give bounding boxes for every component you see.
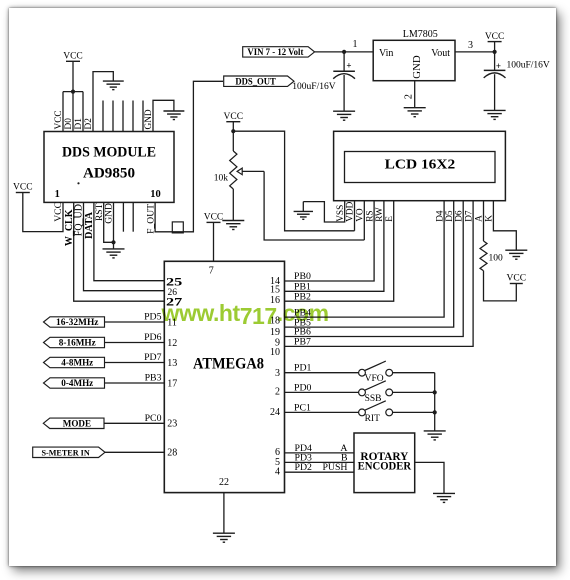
- svg-text:A: A: [475, 215, 485, 222]
- svg-text:RS: RS: [365, 210, 375, 221]
- svg-text:D4: D4: [435, 210, 445, 222]
- svg-text:3: 3: [468, 40, 473, 51]
- svg-text:PB7: PB7: [294, 337, 311, 348]
- svg-text:SSB: SSB: [365, 394, 382, 404]
- svg-text:3: 3: [275, 368, 280, 379]
- svg-text:VCC: VCC: [204, 213, 224, 223]
- svg-text:4: 4: [275, 467, 280, 478]
- svg-text:100uF/16V: 100uF/16V: [507, 61, 550, 71]
- svg-text:D7: D7: [464, 210, 474, 222]
- svg-text:FQ_UD: FQ_UD: [74, 204, 85, 236]
- svg-text:Vin: Vin: [379, 48, 393, 59]
- svg-text:10: 10: [270, 347, 280, 358]
- svg-text:100: 100: [489, 253, 504, 263]
- svg-text:PD5: PD5: [144, 312, 162, 323]
- svg-text:S-METER IN: S-METER IN: [41, 448, 90, 458]
- svg-text:PD7: PD7: [144, 352, 162, 363]
- svg-text:GND: GND: [144, 109, 154, 129]
- svg-text:VCC: VCC: [53, 202, 64, 222]
- svg-text:GND: GND: [104, 203, 115, 224]
- svg-text:VCC: VCC: [507, 274, 527, 284]
- svg-text:25: 25: [166, 275, 182, 289]
- svg-text:E: E: [385, 216, 395, 222]
- svg-text:22: 22: [219, 477, 229, 488]
- svg-text:PD0: PD0: [294, 382, 312, 393]
- svg-text:2: 2: [403, 94, 414, 99]
- svg-text:12: 12: [167, 338, 177, 349]
- svg-text:ATMEGA8: ATMEGA8: [193, 355, 264, 372]
- svg-text:GND: GND: [411, 55, 423, 79]
- svg-text:VCC: VCC: [485, 32, 505, 42]
- svg-text:K: K: [485, 215, 495, 222]
- svg-text:Vout: Vout: [431, 48, 450, 59]
- svg-text:VIN 7 - 12 Volt: VIN 7 - 12 Volt: [247, 47, 304, 58]
- svg-text:D2: D2: [84, 118, 94, 130]
- svg-text:D0: D0: [64, 118, 74, 130]
- svg-text:ENCODER: ENCODER: [358, 460, 412, 472]
- svg-text:LM7805: LM7805: [403, 29, 438, 40]
- svg-text:AD9850: AD9850: [83, 165, 135, 181]
- svg-text:VCC: VCC: [13, 183, 33, 193]
- svg-text:PUSH: PUSH: [322, 462, 347, 473]
- svg-text:RW: RW: [375, 207, 385, 222]
- svg-text:16-32MHz: 16-32MHz: [56, 318, 99, 328]
- svg-text:DDS_OUT: DDS_OUT: [235, 76, 276, 86]
- svg-text:8-16MHz: 8-16MHz: [59, 339, 96, 349]
- svg-text:PC1: PC1: [294, 402, 311, 413]
- svg-text:VCC: VCC: [63, 52, 83, 62]
- svg-text:D6: D6: [454, 210, 464, 222]
- svg-text:VO: VO: [356, 208, 366, 222]
- svg-text:15: 15: [270, 285, 280, 296]
- svg-text:4-8MHz: 4-8MHz: [61, 359, 93, 369]
- svg-text:2: 2: [275, 387, 280, 398]
- svg-text:F_OUT: F_OUT: [145, 204, 156, 234]
- svg-text:17: 17: [167, 378, 177, 389]
- svg-text:23: 23: [167, 419, 177, 430]
- svg-text:PC0: PC0: [145, 413, 162, 424]
- svg-text:LCD 16X2: LCD 16X2: [385, 158, 456, 173]
- svg-text:DDS MODULE: DDS MODULE: [62, 144, 156, 160]
- svg-text:10: 10: [150, 189, 161, 200]
- svg-text:+: +: [496, 61, 501, 71]
- svg-text:0-4MHz: 0-4MHz: [61, 379, 93, 389]
- svg-text:VSS: VSS: [336, 205, 346, 222]
- svg-text:PD2: PD2: [295, 462, 313, 473]
- svg-text:13: 13: [167, 358, 177, 369]
- svg-text:10k: 10k: [214, 174, 229, 184]
- svg-text:PB3: PB3: [145, 373, 162, 384]
- svg-text:PD6: PD6: [144, 332, 162, 343]
- svg-text:D1: D1: [74, 118, 84, 130]
- svg-text:MODE: MODE: [63, 420, 91, 430]
- svg-text:24: 24: [270, 407, 280, 418]
- svg-text:100uF/16V: 100uF/16V: [292, 82, 335, 92]
- svg-text:RIT: RIT: [365, 414, 381, 424]
- svg-text:7: 7: [209, 265, 214, 276]
- svg-text:D5: D5: [445, 210, 455, 222]
- svg-text:+: +: [346, 61, 351, 71]
- svg-text:VCC: VCC: [224, 112, 244, 122]
- svg-text:1: 1: [353, 39, 358, 50]
- svg-text:28: 28: [167, 448, 177, 459]
- svg-text:PD1: PD1: [294, 363, 312, 374]
- svg-text:VDD: VDD: [346, 201, 356, 221]
- svg-text:1: 1: [55, 189, 60, 200]
- svg-text:VCC: VCC: [54, 110, 64, 129]
